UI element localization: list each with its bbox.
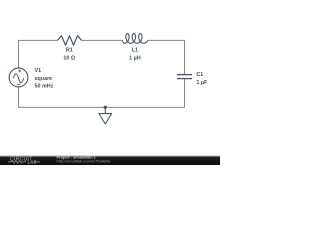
- voltage source V1 plus sign: [18, 70, 21, 73]
- svg-text:L1: L1: [132, 48, 138, 54]
- svg-text:R1: R1: [66, 48, 73, 54]
- svg-text:10 Ω: 10 Ω: [63, 56, 75, 62]
- CircuitLab logo resistor zigzag: [8, 161, 26, 164]
- voltage source V1 sine glyph: [13, 74, 23, 83]
- capacitor C1 top plate: [177, 74, 192, 76]
- svg-text:http://circuitlab.com/c/7534e5: http://circuitlab.com/c/7534e5v: [57, 159, 111, 164]
- voltage source V1 circle: [9, 68, 28, 87]
- wire resistor-to-inductor: [82, 39, 123, 41]
- svg-text:V1: V1: [35, 68, 42, 74]
- CircuitLab logo trailing wire: [37, 161, 41, 163]
- voltage source V1 minus sign: [17, 83, 20, 85]
- svg-text:C1: C1: [196, 72, 203, 78]
- junction node at ground: [104, 106, 107, 109]
- svg-text:LAB: LAB: [28, 160, 37, 165]
- svg-text:50 mHz: 50 mHz: [35, 84, 54, 90]
- svg-text:1 µF: 1 µF: [196, 80, 208, 86]
- capacitor C1 bottom plate: [177, 78, 192, 80]
- ground triangle: [99, 114, 112, 124]
- svg-text:square: square: [35, 76, 53, 82]
- wire bottom rail: [19, 87, 185, 108]
- svg-text:1 µH: 1 µH: [129, 56, 141, 62]
- resistor R1: [58, 36, 82, 45]
- wire top-left segment: [19, 40, 58, 68]
- inductor L1: [122, 34, 147, 44]
- ground stem: [104, 107, 106, 113]
- wire inductor-to-capacitor: [148, 40, 185, 74]
- wire capacitor-to-bottom: [184, 79, 186, 108]
